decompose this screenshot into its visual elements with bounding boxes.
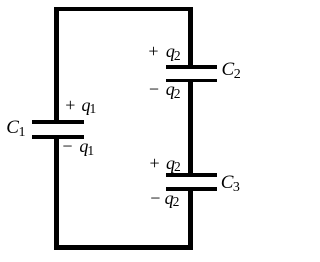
capacitor C1 top plate xyxy=(32,120,84,124)
label -q2 q2 (C3) xyxy=(165,189,180,212)
label +q2 q2 (C3) xyxy=(166,154,181,177)
wire bottom xyxy=(54,245,193,250)
capacitor C1 bottom plate xyxy=(32,135,84,139)
capacitor C3 top plate xyxy=(166,173,217,177)
wire left upper (top rail to C1 top plate) xyxy=(54,7,59,121)
capacitor C2 bottom plate xyxy=(166,79,217,83)
label -q1 q1 xyxy=(79,137,94,160)
wire right lower (C3 bottom plate to bottom rail) xyxy=(188,191,193,250)
wire left lower (C1 bottom plate to bottom rail) xyxy=(54,139,59,250)
label +q2 sign (C2 top charge) xyxy=(148,42,158,60)
capacitor C2 top plate xyxy=(166,65,217,69)
label -q1 sign (C1 bottom charge) xyxy=(62,137,72,155)
label C3 (capacitor C3 name) xyxy=(221,173,240,197)
label +q2 sign (C3 top charge) xyxy=(150,154,160,172)
wire right upper (top rail to C2 top plate) xyxy=(188,7,193,66)
label +q2 q2 (C2) xyxy=(166,42,181,65)
label +q1 q1 xyxy=(82,96,97,119)
capacitor C3 bottom plate xyxy=(166,187,217,191)
label C1 (capacitor C1 name) xyxy=(6,118,25,142)
label C2 (capacitor C2 name) xyxy=(222,60,241,84)
label -q2 sign (C2 bottom charge) xyxy=(149,80,159,98)
wire right middle (C2 bottom plate to C3 top plate) xyxy=(188,82,193,174)
label -q2 sign (C3 bottom charge) xyxy=(150,189,160,207)
wire top xyxy=(54,7,193,12)
label -q2 q2 (C2) xyxy=(166,80,181,103)
label +q1 sign (C1 top charge) xyxy=(65,96,75,114)
